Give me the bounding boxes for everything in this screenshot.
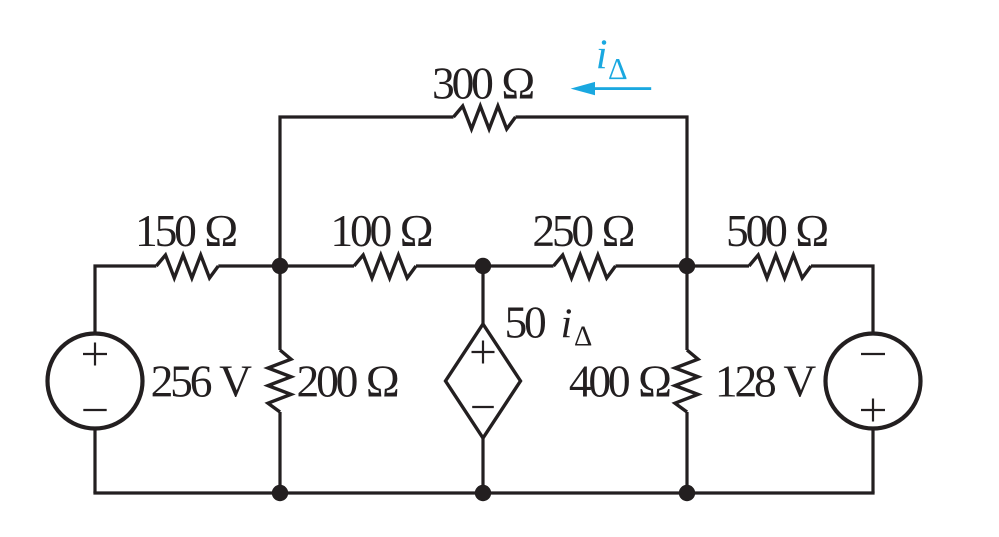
svg-text:Δ: Δ (574, 322, 592, 353)
wire: node B to dependent source top (481, 266, 484, 325)
dependent source U1 diamond (50 i_delta) (446, 324, 521, 438)
node C junction dot (679, 258, 695, 274)
svg-text:50: 50 (505, 297, 547, 348)
resistor 500 ohm (749, 255, 811, 278)
wire: node A to 200 ohm (278, 266, 281, 350)
svg-text:200 Ω: 200 Ω (297, 356, 398, 407)
voltage source V2 128V circle (826, 334, 921, 429)
wire: left branch top corner (V1 to 150 ohm) (95, 266, 156, 334)
bottom rail junction dot under node C (679, 485, 695, 501)
current label i_delta (cyan) (596, 32, 628, 87)
bottom rail junction dot under node A (272, 485, 288, 501)
resistor 250 ohm (554, 255, 616, 278)
wire: node C to 400 ohm (685, 266, 688, 350)
V1 plus sign (83, 343, 107, 366)
wire: node A riser to 300 ohm left terminal (280, 117, 454, 266)
svg-text:i: i (561, 301, 573, 348)
wire: V1 bottom to bottom rail corner (93, 429, 96, 494)
current arrow for i_delta (cyan) (571, 82, 652, 95)
resistor 400 ohm (vertical) (675, 350, 698, 412)
wire: 100 ohm to 250 ohm through node B (416, 264, 554, 267)
node A junction dot (272, 258, 288, 274)
wire: 400 ohm to bottom rail (685, 412, 688, 493)
svg-text:128 V: 128 V (715, 356, 817, 407)
V2 minus sign (861, 353, 885, 355)
wire: bottom rail to V2 bottom (871, 429, 874, 494)
svg-text:i: i (596, 32, 608, 79)
label 50 i_delta (dependent source gain) (505, 297, 593, 353)
wire: 150 ohm to 100 ohm through node A (218, 264, 354, 267)
node B junction dot (475, 258, 491, 274)
resistor 100 ohm (354, 255, 416, 278)
wire: 200 ohm to bottom rail (278, 412, 281, 493)
resistor 300 ohm (454, 106, 516, 129)
svg-text:100 Ω: 100 Ω (330, 205, 431, 256)
V2 plus sign (861, 399, 885, 422)
wire: bottom rail (93, 491, 874, 494)
resistor 200 ohm (vertical) (268, 350, 291, 412)
dependent source minus sign (472, 406, 494, 408)
bottom rail junction dot under node B (475, 485, 491, 501)
svg-text:400 Ω: 400 Ω (569, 356, 670, 407)
wire: 250 ohm to 500 ohm through node C (616, 264, 750, 267)
svg-text:300 Ω: 300 Ω (432, 58, 533, 109)
V1 minus sign (83, 409, 106, 411)
svg-text:Δ: Δ (608, 52, 628, 86)
resistor 150 ohm (156, 255, 218, 278)
svg-text:250 Ω: 250 Ω (532, 205, 633, 256)
svg-text:500 Ω: 500 Ω (726, 205, 827, 256)
dependent source plus sign (472, 341, 495, 364)
wire: 300 ohm right terminal to node C riser (516, 117, 688, 266)
wire: dependent source bottom to bottom rail (481, 437, 484, 493)
wire: 500 ohm to right branch corner down to V2 (811, 266, 873, 334)
svg-text:256 V: 256 V (151, 356, 253, 407)
svg-text:150 Ω: 150 Ω (135, 205, 236, 256)
voltage source V1 256V circle (48, 334, 143, 429)
